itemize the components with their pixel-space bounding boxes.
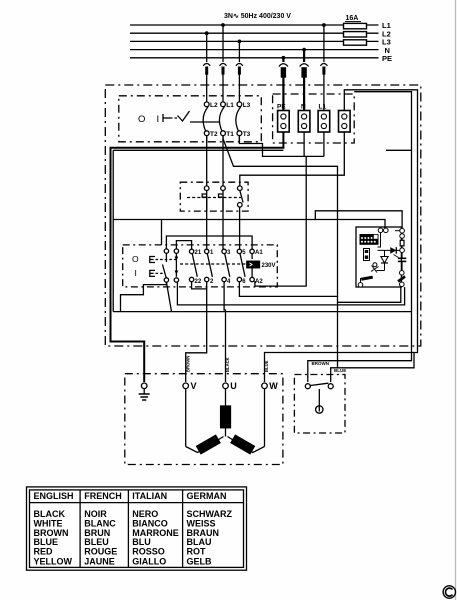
svg-text:GIALLO: GIALLO [132,556,166,566]
svg-text:O: O [132,254,139,264]
svg-text:ROT: ROT [187,547,207,557]
svg-text:BLUE: BLUE [264,360,269,372]
svg-text:V: V [191,381,197,391]
svg-text:BLACK: BLACK [225,357,230,372]
svg-text:BROWN: BROWN [186,356,191,372]
svg-text:1: 1 [210,250,214,256]
svg-text:JAUNE: JAUNE [84,556,115,566]
svg-text:ROUGE: ROUGE [84,547,117,557]
svg-text:T3: T3 [243,131,251,138]
svg-text:ENGLISH: ENGLISH [34,491,74,501]
svg-text:22: 22 [195,279,202,285]
svg-text:21: 21 [195,250,202,256]
svg-text:4: 4 [227,279,231,285]
svg-text:16A: 16A [346,15,359,22]
svg-text:FRENCH: FRENCH [84,491,122,501]
svg-text:W: W [269,381,278,391]
svg-text:RED: RED [34,547,54,557]
svg-text:T1: T1 [226,131,234,138]
svg-text:ROSSO: ROSSO [132,547,165,557]
svg-text:L1: L1 [226,102,234,109]
svg-text:PE: PE [277,104,286,111]
svg-text:T2: T2 [210,131,218,138]
svg-text:GERMAN: GERMAN [187,491,227,501]
svg-text:3N∿ 50Hz 400/230 V: 3N∿ 50Hz 400/230 V [224,13,291,20]
svg-text:PE: PE [382,54,392,63]
svg-text:L2: L2 [210,102,218,109]
svg-text:3: 3 [227,250,231,256]
svg-text:BROWN: BROWN [312,361,330,366]
svg-text:6: 6 [242,279,246,285]
svg-text:ITALIAN: ITALIAN [132,491,167,501]
svg-text:L1: L1 [319,104,327,111]
svg-text:I: I [135,268,137,278]
svg-text:L3: L3 [243,102,251,109]
svg-text:A1: A1 [255,250,263,256]
svg-text:I: I [157,114,160,125]
svg-text:2: 2 [210,279,214,285]
svg-text:N: N [301,104,306,111]
svg-text:BLUE: BLUE [334,368,346,373]
svg-text:YELLOW: YELLOW [34,556,73,566]
svg-text:O: O [138,114,145,125]
svg-text:GELB: GELB [187,556,213,566]
svg-text:5: 5 [242,250,246,256]
svg-text:230V: 230V [262,263,276,269]
svg-text:A2: A2 [255,279,263,285]
svg-text:U: U [230,381,237,391]
